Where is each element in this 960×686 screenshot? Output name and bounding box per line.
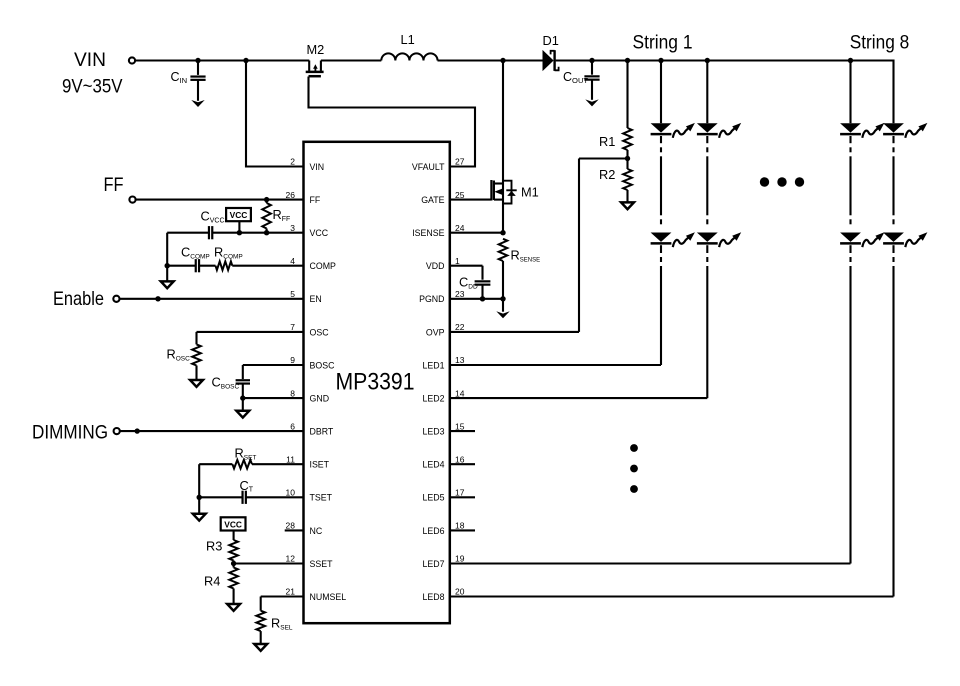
junction SSET at R3 R4 xyxy=(231,561,236,566)
wire VCC left to ground branch xyxy=(167,233,209,266)
svg-text:8: 8 xyxy=(290,388,295,398)
svg-text:DBRT: DBRT xyxy=(310,427,334,437)
svg-text:VCC: VCC xyxy=(310,228,329,238)
svg-text:LED1: LED1 xyxy=(422,360,444,370)
resistor ROSC xyxy=(167,344,201,380)
svg-text:5: 5 xyxy=(290,289,295,299)
svg-text:19: 19 xyxy=(455,554,465,564)
wire rail segment 4 (output bus) xyxy=(556,59,895,61)
wire LED1 pin 13 xyxy=(450,364,661,366)
svg-text:LED5: LED5 xyxy=(422,493,444,503)
svg-text:VIN: VIN xyxy=(74,49,106,71)
junction on rail at CIN xyxy=(195,58,200,63)
wire ISENSE pin 24 xyxy=(450,232,503,234)
svg-text:ISENSE: ISENSE xyxy=(412,228,444,238)
wire RCOMP to pin 4 xyxy=(232,265,303,267)
junction on EN wire xyxy=(155,296,160,301)
svg-text:10: 10 xyxy=(286,488,296,498)
svg-text:11: 11 xyxy=(286,454,295,464)
junction on rail at M1 drain xyxy=(500,58,505,63)
svg-text:6: 6 xyxy=(290,421,295,431)
svg-text:BOSC: BOSC xyxy=(310,360,336,370)
wire M2 gate to VFAULT xyxy=(309,77,476,167)
svg-text:LED6: LED6 xyxy=(422,526,444,536)
wire PGND to ground xyxy=(502,299,504,312)
wire FF to pin 26 xyxy=(136,199,304,201)
svg-text:LED4: LED4 xyxy=(422,460,444,470)
junction on rail at R1 xyxy=(625,58,630,63)
junction TSET ground xyxy=(197,495,202,500)
wire TSET ground stub xyxy=(198,497,200,514)
label String 1 xyxy=(633,31,693,53)
svg-text:D1: D1 xyxy=(543,33,559,48)
junction R1 R2 xyxy=(625,156,630,161)
wire GND to ground xyxy=(242,398,244,411)
wire NC stub pin 28 xyxy=(285,529,304,531)
svg-text:26: 26 xyxy=(286,190,296,200)
svg-text:R3: R3 xyxy=(206,539,222,554)
svg-text:LED7: LED7 xyxy=(422,559,444,569)
power flag VCC box 2 xyxy=(221,517,246,540)
svg-text:28: 28 xyxy=(286,521,296,531)
LED string column 3 xyxy=(840,61,884,564)
junction rail at string column 1 xyxy=(658,58,663,63)
wire rail segment 2 xyxy=(321,59,381,61)
wire LED5 stub pin 17 xyxy=(450,496,475,498)
capacitor CBOSC xyxy=(212,375,251,399)
svg-text:EN: EN xyxy=(310,294,322,304)
LED string column 1 xyxy=(651,61,695,366)
svg-text:PGND: PGND xyxy=(419,294,444,304)
junction on DBRT wire xyxy=(135,428,140,433)
node Enable input terminal xyxy=(53,288,120,310)
wire PGND pin 23 xyxy=(450,298,503,300)
svg-text:R1: R1 xyxy=(599,134,615,149)
ground below CIN xyxy=(191,100,204,107)
svg-text:FF: FF xyxy=(104,174,124,196)
svg-text:String 8: String 8 xyxy=(850,31,910,53)
LED string column 2 xyxy=(697,61,741,399)
svg-text:DIMMING: DIMMING xyxy=(32,422,108,444)
svg-text:M1: M1 xyxy=(521,185,539,200)
svg-text:MP3391: MP3391 xyxy=(336,369,415,396)
resistor RFF xyxy=(262,200,290,233)
junction on rail at COUT xyxy=(589,58,594,63)
wire RSET to pin 11 xyxy=(252,463,304,465)
wire NUMSEL pin 21 xyxy=(261,597,304,611)
ellipsis dots between LED outputs xyxy=(630,444,638,493)
svg-text:VFAULT: VFAULT xyxy=(412,162,445,172)
svg-text:16: 16 xyxy=(455,454,465,464)
capacitor CCOMP xyxy=(181,245,210,273)
svg-text:OSC: OSC xyxy=(310,327,330,337)
svg-text:15: 15 xyxy=(455,421,465,431)
svg-text:VIN: VIN xyxy=(310,162,325,172)
svg-text:LED8: LED8 xyxy=(422,592,444,602)
wire VIN pin 2 branch xyxy=(246,61,304,167)
svg-text:18: 18 xyxy=(455,521,465,531)
transistor M1 xyxy=(491,61,538,233)
junction ISENSE at RSENSE xyxy=(500,230,505,235)
svg-text:OVP: OVP xyxy=(426,327,445,337)
wire rail segment 3 xyxy=(438,59,543,61)
svg-text:9: 9 xyxy=(290,355,295,365)
svg-text:NUMSEL: NUMSEL xyxy=(310,592,347,602)
transistor M2 xyxy=(306,42,325,76)
junction FF at RFF xyxy=(264,197,269,202)
svg-text:20: 20 xyxy=(455,587,465,597)
junction on rail at VIN pin branch xyxy=(243,58,248,63)
resistor R3 xyxy=(206,539,238,564)
wire LED4 stub pin 16 xyxy=(450,463,475,465)
wire VDD pin 1 xyxy=(450,266,483,280)
junction PGND at CDD xyxy=(480,296,485,301)
ground below ROSC xyxy=(190,380,203,387)
wire ISET corner xyxy=(199,464,232,497)
wire OSC pin 7 xyxy=(197,332,304,345)
svg-text:SSET: SSET xyxy=(310,559,334,569)
ellipsis dots between strings xyxy=(760,177,804,186)
node DIMMING input terminal xyxy=(32,422,120,444)
svg-text:14: 14 xyxy=(455,388,465,398)
pin labels right side xyxy=(412,157,465,602)
node FF input terminal xyxy=(104,174,136,203)
svg-text:7: 7 xyxy=(290,322,295,332)
junction VCC at RFF xyxy=(264,230,269,235)
wire LED2 pin 14 xyxy=(450,397,708,399)
capacitor CIN xyxy=(171,61,206,101)
svg-text:String 1: String 1 xyxy=(633,31,693,53)
node VIN input terminal xyxy=(62,49,135,98)
capacitor CT xyxy=(240,478,254,504)
svg-text:ISET: ISET xyxy=(310,460,330,470)
ground below RSENSE xyxy=(496,311,509,318)
svg-text:17: 17 xyxy=(455,488,465,498)
wire rail corner to column 4 xyxy=(892,60,894,124)
svg-text:12: 12 xyxy=(286,554,296,564)
svg-text:VDD: VDD xyxy=(426,261,445,271)
svg-text:NC: NC xyxy=(310,526,323,536)
wire BOSC pin 9 xyxy=(243,365,304,379)
svg-text:21: 21 xyxy=(286,587,296,597)
LED string column 4 xyxy=(883,123,927,597)
wire GATE pin 25 xyxy=(450,199,492,201)
svg-text:13: 13 xyxy=(455,355,465,365)
wire COMP cap to RCOMP xyxy=(199,265,215,267)
resistor R2 xyxy=(599,159,632,203)
ground below GND pin xyxy=(236,411,249,418)
svg-text:R4: R4 xyxy=(204,574,220,589)
power flag VCC box 1 xyxy=(226,208,251,233)
junction GND at CBOSC xyxy=(240,395,245,400)
diode D1 xyxy=(543,33,559,71)
svg-text:24: 24 xyxy=(455,223,465,233)
ground below R2 xyxy=(621,202,634,209)
wire VIN rail segment 1 xyxy=(135,59,309,61)
svg-text:LED2: LED2 xyxy=(422,394,444,404)
ground below COUT xyxy=(585,99,598,106)
wire Enable to pin 5 xyxy=(120,298,304,300)
wire VCC pin 3 xyxy=(213,232,304,234)
ground below RSEL xyxy=(254,644,267,651)
svg-text:R2: R2 xyxy=(599,167,615,182)
capacitor CDD xyxy=(459,275,490,299)
resistor RSET xyxy=(232,446,256,469)
resistor RSENSE xyxy=(499,239,540,299)
ground below TSET xyxy=(193,514,206,521)
svg-text:23: 23 xyxy=(455,289,465,299)
svg-text:L1: L1 xyxy=(401,32,415,47)
wire GND pin 8 xyxy=(243,397,304,399)
wire LED7 pin 19 xyxy=(450,562,851,564)
wire SSET to pin 12 xyxy=(234,562,304,564)
svg-text:Enable: Enable xyxy=(53,288,104,310)
resistor R1 xyxy=(599,61,632,159)
wire TSET left xyxy=(199,496,242,498)
wire LED8 pin 20 xyxy=(450,595,894,597)
svg-text:VCC: VCC xyxy=(230,210,248,220)
inductor L1 xyxy=(381,32,437,61)
svg-text:VCC: VCC xyxy=(224,520,242,530)
svg-text:2: 2 xyxy=(290,157,295,167)
junction compensation ground xyxy=(165,263,170,268)
wire COMP ground stub xyxy=(167,266,196,282)
svg-text:25: 25 xyxy=(455,190,465,200)
resistor RSEL xyxy=(256,611,293,645)
svg-text:22: 22 xyxy=(455,322,465,332)
svg-text:GND: GND xyxy=(310,394,330,404)
resistor RCOMP xyxy=(214,245,243,270)
svg-text:LED3: LED3 xyxy=(422,427,444,437)
wire DIMMING to pin 6 xyxy=(120,430,304,432)
svg-text:27: 27 xyxy=(455,157,465,167)
wire LED3 stub pin 15 xyxy=(450,430,475,432)
svg-text:1: 1 xyxy=(455,256,460,266)
op-amp U1 MP3391 IC body xyxy=(304,142,450,623)
junction VCC at VCC-box stem xyxy=(237,230,242,235)
svg-text:TSET: TSET xyxy=(310,493,333,503)
junction rail at string column 3 xyxy=(848,58,853,63)
svg-text:FF: FF xyxy=(310,195,321,205)
junction rail at string column 2 xyxy=(705,58,710,63)
capacitor CVCC xyxy=(201,209,225,240)
capacitor COUT xyxy=(563,61,600,100)
svg-text:4: 4 xyxy=(290,256,295,266)
wire OVP to R1 R2 junction xyxy=(450,159,627,332)
wire TSET to pin 10 xyxy=(246,496,304,498)
ground below R4 xyxy=(227,604,240,611)
label String 8 xyxy=(850,31,910,53)
junction PGND at RSENSE xyxy=(500,296,505,301)
svg-text:9V~35V: 9V~35V xyxy=(62,76,123,98)
pin labels left side xyxy=(286,157,347,602)
resistor R4 xyxy=(204,564,238,605)
svg-text:GATE: GATE xyxy=(421,195,444,205)
svg-text:COMP: COMP xyxy=(310,261,337,271)
ground compensation network xyxy=(161,281,174,288)
svg-text:M2: M2 xyxy=(307,42,325,57)
svg-text:3: 3 xyxy=(290,223,295,233)
wire LED6 stub pin 18 xyxy=(450,529,475,531)
